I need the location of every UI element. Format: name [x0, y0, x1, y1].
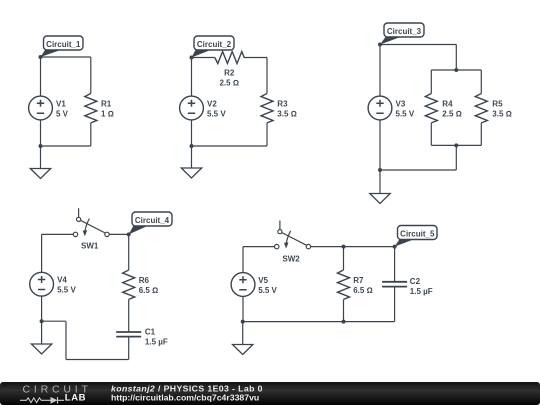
svg-text:5 V: 5 V — [56, 109, 69, 118]
svg-text:R3: R3 — [277, 99, 288, 108]
svg-text:5.5 V: 5.5 V — [258, 286, 277, 295]
svg-text:LAB: LAB — [65, 393, 86, 404]
svg-text:C2: C2 — [410, 277, 421, 286]
svg-text:V1: V1 — [56, 99, 66, 108]
svg-text:R6: R6 — [139, 276, 150, 285]
svg-text:R1: R1 — [101, 99, 112, 108]
svg-text:Circuit_1: Circuit_1 — [46, 40, 81, 49]
svg-text:1 Ω: 1 Ω — [101, 109, 114, 118]
svg-text:C1: C1 — [145, 327, 156, 336]
svg-text:Circuit_3: Circuit_3 — [387, 27, 422, 36]
svg-text:V2: V2 — [207, 99, 217, 108]
svg-text:2.5 Ω: 2.5 Ω — [442, 109, 462, 118]
svg-text:R4: R4 — [442, 99, 453, 108]
svg-text:5.5 V: 5.5 V — [207, 109, 226, 118]
svg-text:5.5 V: 5.5 V — [396, 109, 415, 118]
svg-text:V3: V3 — [396, 99, 406, 108]
svg-text:3.5 Ω: 3.5 Ω — [277, 109, 297, 118]
svg-text:R7: R7 — [353, 276, 364, 285]
svg-text:6.5 Ω: 6.5 Ω — [353, 286, 373, 295]
svg-text:V5: V5 — [258, 276, 268, 285]
svg-text:2.5 Ω: 2.5 Ω — [219, 78, 239, 87]
svg-text:Circuit_4: Circuit_4 — [135, 216, 170, 225]
svg-text:SW1: SW1 — [81, 242, 99, 251]
svg-text:6.5 Ω: 6.5 Ω — [139, 286, 159, 295]
svg-text:1.5 µF: 1.5 µF — [410, 287, 433, 296]
svg-text:5.5 V: 5.5 V — [57, 286, 76, 295]
svg-text:3.5 Ω: 3.5 Ω — [492, 109, 512, 118]
svg-text:1.5 µF: 1.5 µF — [145, 337, 168, 346]
svg-text:R5: R5 — [492, 99, 503, 108]
svg-text:SW2: SW2 — [282, 254, 300, 263]
svg-text:R2: R2 — [224, 69, 235, 78]
svg-text:Circuit_2: Circuit_2 — [197, 40, 232, 49]
svg-text:V4: V4 — [57, 276, 67, 285]
svg-text:http://circuitlab.com/cbq7c4r3: http://circuitlab.com/cbq7c4r3387vu — [111, 393, 259, 403]
svg-text:Circuit_5: Circuit_5 — [400, 229, 435, 238]
